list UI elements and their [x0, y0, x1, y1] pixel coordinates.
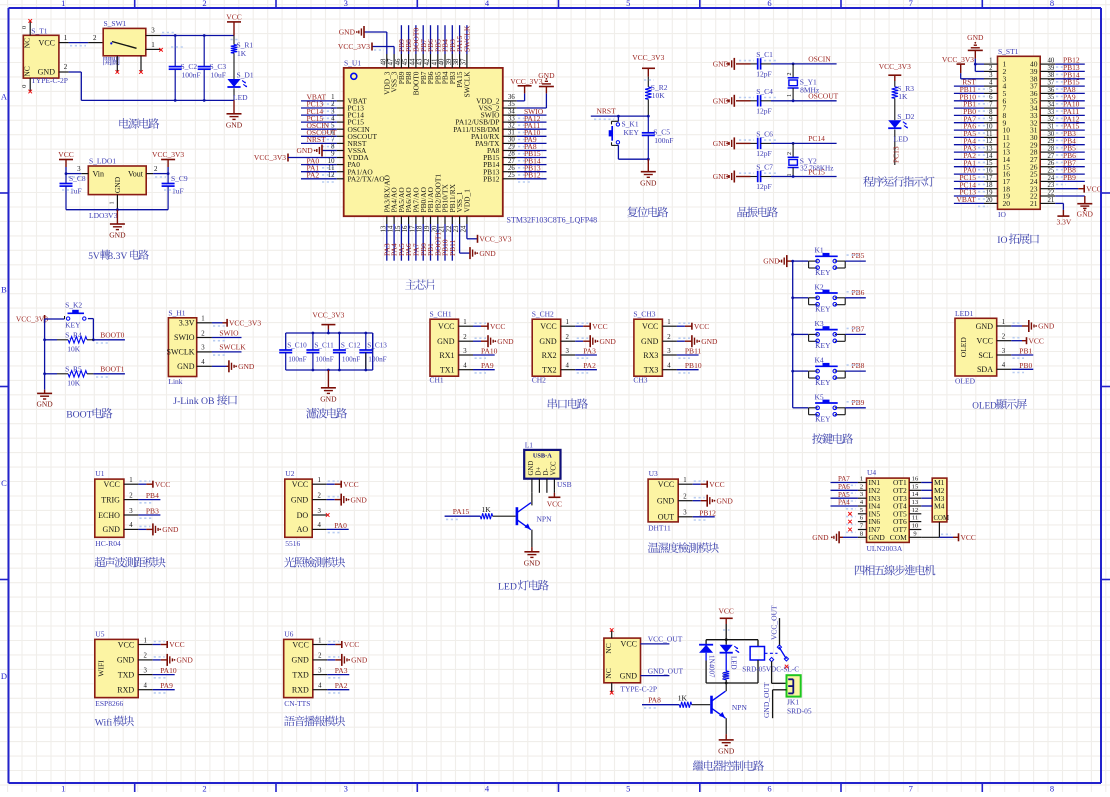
connector H1 J-Link body	[168, 309, 196, 387]
svg-text:SDA: SDA	[977, 365, 993, 374]
wire net PB6 at K2	[845, 288, 866, 298]
pin ST1.27	[1030, 153, 1055, 164]
pin U4.4 IN	[858, 499, 881, 511]
pin ST1.1	[984, 58, 1007, 69]
svg-text:22: 22	[1048, 189, 1055, 196]
pin ST1.39	[1030, 65, 1055, 76]
svg-text:GND: GND	[38, 67, 56, 76]
svg-text:3: 3	[565, 348, 569, 355]
svg-text:13: 13	[912, 499, 919, 506]
svg-text:42: 42	[424, 58, 431, 65]
svg-text:OLED: OLED	[955, 377, 976, 386]
svg-text:3: 3	[860, 491, 863, 498]
power 3.3V at ST1.21	[1055, 203, 1072, 226]
svg-text:12: 12	[912, 507, 919, 514]
svg-text:12pF: 12pF	[756, 106, 771, 115]
svg-text:GND_OUT: GND_OUT	[648, 666, 684, 675]
svg-text:Vin: Vin	[93, 169, 105, 178]
svg-text:8: 8	[331, 144, 335, 151]
svg-text:GND: GND	[967, 33, 984, 42]
svg-text:8: 8	[1050, 0, 1054, 8]
svg-text:WIFI: WIFI	[96, 660, 105, 677]
svg-text:9: 9	[913, 530, 916, 537]
pin U1.12 PA2/TX/AO	[328, 172, 386, 183]
pin ST1.5	[984, 87, 1007, 98]
svg-text:2: 2	[202, 784, 206, 793]
pin U1.3 PC14	[331, 108, 364, 119]
net PB4 at U1.2	[138, 491, 160, 503]
pin U1.32 PA11/USB/DM	[453, 122, 517, 133]
capacitor C10 100nF filter	[279, 342, 307, 371]
svg-text:DHT11: DHT11	[648, 523, 671, 532]
svg-text:7: 7	[909, 0, 913, 8]
svg-text:C: C	[1, 478, 7, 488]
wire net PB8 at K4	[845, 361, 866, 371]
pin U1.19 PB1/AO	[424, 186, 435, 232]
svg-text:6: 6	[989, 94, 993, 101]
svg-text:5V: 5V	[88, 252, 100, 262]
svg-text:VCC_3V3: VCC_3V3	[338, 42, 370, 51]
pin U1.11 PA1/AO	[328, 165, 373, 176]
svg-text:RXD: RXD	[292, 686, 309, 695]
svg-text:COM: COM	[890, 533, 907, 542]
pin U2.4 AO	[297, 522, 327, 534]
ground GND filter	[320, 370, 337, 404]
svg-text:USB: USB	[557, 480, 572, 489]
pin ST1.32	[1030, 116, 1055, 127]
pin U1.29 PA8	[487, 144, 517, 155]
svg-text:29: 29	[1048, 138, 1055, 145]
svg-text:S_C9: S_C9	[171, 174, 188, 183]
svg-text:VCC: VCC	[551, 461, 558, 475]
svg-text:TX2: TX2	[542, 366, 557, 375]
svg-text:17: 17	[986, 175, 993, 182]
svg-text:31: 31	[508, 130, 515, 137]
svg-text:PB0: PB0	[1019, 361, 1032, 370]
svg-text:LED: LED	[894, 135, 909, 144]
svg-text:7: 7	[989, 102, 993, 109]
svg-text:39: 39	[1048, 65, 1055, 72]
svg-text:STM32F103C8T6_LQFP48: STM32F103C8T6_LQFP48	[507, 216, 598, 225]
svg-text:5516: 5516	[285, 539, 300, 548]
net VCC at CH1.1	[473, 322, 505, 331]
pin U1.31 PA10/RX	[471, 130, 517, 141]
svg-text:VCC: VCC	[621, 639, 637, 648]
pin ST1.2	[984, 65, 1007, 76]
wire T1.1 to SW1.2	[69, 43, 89, 46]
wire and net label PB14 at U1.27	[517, 156, 547, 168]
svg-text:GND: GND	[291, 656, 309, 665]
svg-text:3: 3	[344, 0, 348, 8]
pin H1.2 SWIO	[174, 330, 212, 342]
pin U1.26 PB13	[483, 165, 517, 176]
svg-text:PB12: PB12	[483, 174, 500, 183]
svg-text:16: 16	[912, 476, 919, 483]
ground GND keys	[763, 255, 792, 267]
pin ST1.23	[1030, 182, 1055, 193]
pin U1.38 PA15	[453, 54, 464, 88]
svg-text:27: 27	[508, 158, 515, 165]
svg-text:Link: Link	[168, 377, 182, 386]
pin U1.2 TRIG	[101, 492, 138, 504]
svg-text:8: 8	[989, 109, 993, 116]
ground GND LED lamp	[524, 547, 541, 567]
svg-text:PA2: PA2	[307, 171, 320, 180]
wire and net label PA8 at U1.29	[517, 142, 547, 154]
pin ST1.3	[984, 72, 1007, 83]
wire net SWIO at H1.2	[212, 328, 242, 340]
wire net PB15 at ST1.37	[1055, 78, 1085, 89]
connector CH1 body	[430, 310, 459, 385]
svg-text:PA10: PA10	[481, 347, 498, 356]
svg-text:1: 1	[129, 477, 132, 484]
pin U1.45 PB8	[402, 54, 413, 84]
svg-text:D-: D-	[543, 468, 550, 476]
svg-text:1: 1	[318, 637, 321, 644]
wire net PB8 at ST1.25	[1055, 166, 1085, 177]
svg-text:CH3: CH3	[633, 376, 647, 385]
power VCC at L1.4	[547, 490, 562, 508]
svg-text:1K: 1K	[237, 49, 247, 58]
wire and net label PB6 at U1.42	[426, 25, 435, 54]
wire and net label PA3 at U1.13	[382, 224, 391, 261]
svg-text:VCC: VCC	[1029, 336, 1044, 345]
svg-text:HC-R04: HC-R04	[95, 539, 121, 548]
svg-text:3.3V: 3.3V	[108, 251, 127, 262]
wire and net label PA0 at U1.10	[301, 156, 337, 168]
svg-text:VCC: VCC	[592, 322, 607, 331]
svg-text:KEY: KEY	[815, 415, 831, 424]
wire and net label PB10 at U1.21	[441, 224, 450, 261]
svg-text:100nF: 100nF	[654, 136, 673, 145]
title key circuit	[812, 433, 823, 444]
wire net PA6 at U4.2	[831, 483, 858, 493]
pin ST1.6	[984, 94, 1007, 105]
svg-text:44: 44	[409, 58, 416, 65]
svg-text:38: 38	[1048, 72, 1055, 79]
svg-text:33: 33	[508, 115, 515, 122]
svg-text:100nF: 100nF	[342, 356, 360, 364]
svg-text:A: A	[1, 92, 8, 102]
svg-text:KEY: KEY	[65, 321, 81, 330]
svg-text:PA0: PA0	[334, 521, 347, 530]
pin U1.14 PA4/AO	[388, 187, 399, 233]
wire and net label VBAT at U1.1	[301, 93, 337, 105]
svg-text:32: 32	[508, 122, 515, 129]
svg-text:RX1: RX1	[439, 351, 454, 360]
wire net OSCIN	[771, 55, 837, 66]
pin ST1.30	[1030, 131, 1055, 142]
svg-text:1: 1	[1002, 319, 1005, 326]
svg-text:38: 38	[453, 58, 460, 65]
svg-text:33: 33	[1048, 109, 1055, 116]
svg-text:34: 34	[508, 108, 515, 115]
svg-text:LED: LED	[498, 582, 517, 593]
wire L1.1 to Q collector	[531, 493, 533, 506]
svg-text:GND: GND	[539, 337, 557, 346]
wire filter bottom rail	[286, 353, 366, 372]
pin CH1.2 GND	[437, 334, 473, 346]
svg-text:NPN: NPN	[537, 515, 553, 524]
wire net PA1 at ST1.15	[954, 158, 988, 169]
svg-text:GND: GND	[437, 337, 455, 346]
svg-text:GND: GND	[226, 121, 243, 130]
power VCC_3V3 at U1.24 VDD_1	[467, 224, 512, 244]
svg-text:2: 2	[93, 34, 97, 42]
title four-phase five-wire stepper motor	[855, 565, 865, 575]
svg-text:15: 15	[912, 483, 919, 490]
wire net PB0 at ST1.8	[954, 107, 988, 118]
svg-text:10uF: 10uF	[211, 70, 226, 79]
svg-text:VCC: VCC	[343, 480, 358, 489]
svg-text:19: 19	[986, 189, 993, 196]
svg-text:35: 35	[508, 101, 515, 108]
power VCC_3V3 at U1.47 VSS_3	[338, 42, 394, 54]
wire and net label SWIO at U1.34	[517, 107, 547, 119]
net PB0 at LED1.4	[1011, 361, 1033, 373]
pin U1.30 PA9/TX	[475, 137, 517, 148]
wire keys common rail	[791, 260, 794, 408]
svg-text:KEY: KEY	[815, 378, 831, 387]
svg-text:4: 4	[463, 363, 467, 370]
svg-text:S_T1: S_T1	[31, 27, 48, 36]
svg-text:PA3: PA3	[583, 347, 596, 356]
svg-text:16: 16	[986, 168, 993, 175]
svg-text:2: 2	[201, 330, 205, 337]
svg-text:GND: GND	[869, 533, 886, 542]
pin U6.4 RXD	[292, 683, 327, 695]
power VCC_3V3 at ST1.3	[942, 55, 984, 79]
svg-text:ULN2003A: ULN2003A	[867, 544, 903, 553]
wire relay top rail	[706, 638, 758, 646]
svg-text:30: 30	[1048, 131, 1055, 138]
svg-text:10K: 10K	[67, 344, 81, 353]
net GND at CH2.2	[575, 335, 616, 347]
svg-text:VCC: VCC	[344, 640, 359, 649]
svg-text:GND: GND	[976, 322, 994, 331]
pin CH3.3 RX3	[643, 348, 677, 360]
svg-text:Wifi: Wifi	[95, 717, 113, 728]
pin LDO1.3 Vin	[65, 165, 89, 177]
wire filter right leg patch	[364, 332, 372, 372]
wire and net label PA15 at U1.38	[455, 25, 464, 54]
svg-text:GND: GND	[812, 533, 829, 542]
wire net PA4 at U4.4	[831, 499, 858, 509]
svg-text:18: 18	[986, 182, 993, 189]
svg-text:48: 48	[380, 58, 387, 65]
wire net PA0 at ST1.16	[954, 166, 988, 177]
svg-text:20: 20	[986, 197, 993, 204]
svg-text:1K: 1K	[482, 505, 492, 514]
svg-text:100nF: 100nF	[182, 70, 201, 79]
module U6 CN-TTS body	[284, 629, 313, 708]
svg-text:U6: U6	[284, 629, 293, 638]
svg-text:GND: GND	[620, 671, 638, 680]
svg-text:1: 1	[667, 319, 670, 326]
svg-text:VCC_3V3: VCC_3V3	[254, 153, 286, 162]
svg-text:20: 20	[1003, 199, 1011, 208]
svg-text:23: 23	[1048, 182, 1055, 189]
display LED1 OLED body	[955, 309, 997, 386]
svg-text:VCC: VCC	[58, 150, 73, 159]
pin U1.35 VSS_2	[479, 101, 517, 112]
wire Q1 emitter to GND	[531, 530, 532, 547]
svg-text:2: 2	[331, 101, 335, 108]
pin U5.2 GND	[117, 653, 153, 665]
svg-text:CH2: CH2	[532, 376, 546, 385]
pin ST1.14	[984, 153, 1010, 164]
net PB10 at CH3.4	[677, 361, 702, 373]
resistor R6 1K relay	[720, 653, 729, 683]
title light detect module	[284, 557, 295, 568]
power VCC top	[226, 12, 241, 35]
svg-text:VCC: VCC	[226, 12, 241, 21]
svg-text:3: 3	[77, 165, 81, 173]
wire and net label PC15 at U1.4	[301, 114, 337, 126]
power VCC_3V3 filter	[312, 311, 344, 334]
svg-text:PA4: PA4	[838, 499, 850, 507]
net PA9 at CH1.4	[473, 361, 495, 373]
wire reset bottom	[618, 158, 649, 161]
net GND at CH3.2	[677, 335, 718, 347]
svg-text:32: 32	[1048, 116, 1055, 123]
svg-text:RX2: RX2	[542, 351, 557, 360]
capacitor C3 10uF	[198, 36, 227, 101]
pin CH3.1 VCC	[642, 319, 677, 331]
svg-text:VCC_3V3: VCC_3V3	[942, 55, 974, 64]
svg-text:40: 40	[439, 58, 446, 65]
svg-text:BOOT: BOOT	[66, 410, 92, 421]
svg-text:1: 1	[787, 94, 793, 97]
svg-text:14: 14	[986, 153, 993, 160]
ground GND at H1.4	[212, 360, 255, 372]
no-connect at U4.6	[846, 520, 856, 525]
svg-text:VCC_OUT: VCC_OUT	[648, 635, 683, 644]
no-connect at U2.3	[326, 513, 330, 517]
pin T1.NC top stub	[21, 19, 32, 35]
svg-text:PB4: PB4	[146, 491, 159, 500]
svg-text:4: 4	[129, 522, 133, 529]
capacitor S_C6 12pF	[713, 130, 778, 158]
svg-text:VCC: VCC	[103, 480, 119, 489]
svg-text:3: 3	[344, 784, 348, 793]
capacitor C12 100nF filter	[333, 333, 361, 370]
pin ST1.28	[1030, 146, 1055, 157]
svg-text:1: 1	[463, 319, 466, 326]
svg-text:RXD: RXD	[117, 686, 134, 695]
net PA3 at CH2.3	[575, 347, 597, 359]
net PA2 at CH2.4	[575, 361, 597, 373]
wire net PB5 at ST1.28	[1055, 144, 1085, 155]
svg-text:S_CH2: S_CH2	[532, 310, 554, 319]
pin ST1.29	[1030, 138, 1055, 149]
svg-text:25: 25	[1048, 168, 1055, 175]
pin U1.2 PC13	[331, 101, 364, 112]
capacitor C5 100nF	[642, 116, 674, 159]
svg-text:VCC: VCC	[292, 480, 308, 489]
net PB12 at U3.3	[693, 508, 716, 520]
wire net SWCLK at H1.3	[212, 343, 246, 355]
wire net PA11 at ST1.33	[1055, 107, 1085, 118]
pin SW1.2	[88, 34, 103, 43]
wire T1.2 GND bottom rail	[59, 63, 234, 102]
pin ST1.31	[1030, 124, 1055, 135]
svg-text:24: 24	[1048, 175, 1055, 182]
pin LED1.4 SDA	[977, 362, 1011, 374]
pushbutton K4 KEY	[793, 356, 846, 387]
svg-text:12: 12	[328, 172, 335, 179]
pushbutton K5 KEY	[793, 392, 846, 423]
svg-text:S_C10: S_C10	[287, 342, 307, 350]
svg-text:3: 3	[331, 108, 335, 115]
svg-text:2: 2	[683, 494, 687, 501]
svg-text:GND: GND	[351, 656, 368, 665]
svg-text:S_R4: S_R4	[65, 330, 82, 339]
svg-text:2: 2	[318, 653, 322, 660]
svg-text:7: 7	[331, 137, 335, 144]
capacitor C2 100nF	[169, 36, 201, 101]
svg-text:2: 2	[667, 334, 671, 341]
svg-text:4: 4	[201, 359, 205, 366]
regulator LDO1 LDO3V3	[88, 157, 146, 221]
svg-text:NC: NC	[604, 643, 613, 653]
pin CH1.4 TX1	[440, 363, 473, 375]
svg-text:45: 45	[402, 58, 409, 65]
svg-text:GND: GND	[600, 337, 617, 346]
svg-text:TYPE-C-2P: TYPE-C-2P	[31, 76, 68, 85]
svg-text:VBAT: VBAT	[956, 195, 976, 204]
svg-text:PB12: PB12	[699, 508, 716, 517]
wire net PC15 at ST1.17	[954, 173, 988, 184]
wire net PB1 at ST1.7	[954, 100, 988, 111]
capacitor C11 100nF filter	[306, 333, 334, 370]
svg-text:1N4007: 1N4007	[708, 655, 716, 678]
pin U1.10 PA0	[328, 158, 361, 169]
connector CH3 body	[633, 310, 662, 385]
LED D4 relay	[720, 640, 740, 670]
net PB3 at U1.3	[138, 507, 160, 519]
svg-text:TYPE-C-2P: TYPE-C-2P	[620, 684, 657, 693]
svg-text:GND: GND	[291, 495, 309, 504]
svg-text:4: 4	[318, 683, 322, 690]
svg-text:PA9: PA9	[160, 681, 173, 690]
pin U1.1 VBAT	[331, 94, 367, 105]
net PA10 at U5.3	[153, 666, 177, 678]
pin U1.27 PB14	[483, 158, 517, 169]
svg-text:4: 4	[331, 115, 335, 122]
svg-text:S_K2: S_K2	[65, 301, 82, 310]
relay coil SRD-05VDC-SL-C	[706, 647, 799, 685]
pin U1.36 VDD_2	[476, 94, 517, 105]
svg-text:OSCOUT: OSCOUT	[808, 92, 838, 101]
svg-text:GND: GND	[117, 656, 135, 665]
svg-text:11: 11	[328, 165, 335, 172]
wire net PA4 at ST1.12	[954, 136, 988, 147]
title reset circuit	[627, 207, 637, 218]
module U3 DHT11 body	[648, 469, 678, 532]
svg-text:SWIO: SWIO	[219, 328, 239, 337]
net VCC at U3.1	[693, 480, 725, 489]
pin H1.1 3.3V	[179, 316, 212, 328]
pin SW1 bottom stub b	[139, 56, 143, 74]
svg-text:S_ST1: S_ST1	[998, 47, 1019, 56]
crystal Y2 32.768KHz	[787, 143, 833, 176]
svg-text:100nF: 100nF	[315, 356, 333, 364]
pin ST1.19	[984, 189, 1010, 200]
wire net PB9 at ST1.24	[1055, 173, 1085, 184]
svg-text:LED: LED	[730, 656, 738, 670]
svg-text:10K: 10K	[652, 91, 666, 100]
